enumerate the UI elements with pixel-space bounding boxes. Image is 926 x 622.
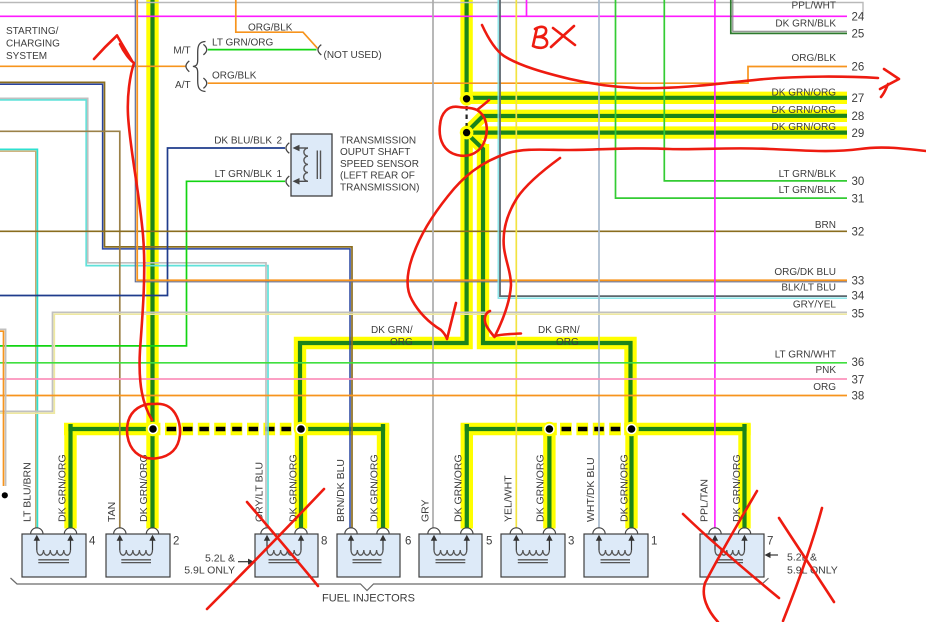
- svg-text:YEL/WHT: YEL/WHT: [503, 475, 515, 522]
- svg-text:PNK: PNK: [815, 365, 836, 376]
- connector arc M/T: [203, 44, 206, 54]
- svg-text:28: 28: [852, 111, 865, 123]
- svg-text:LT GRN/BLK: LT GRN/BLK: [779, 169, 837, 180]
- DASHES: [167, 106, 628, 429]
- wire LT GRN/WHT row 36: [0, 362, 847, 364]
- svg-text:BRN/DK BLU: BRN/DK BLU: [335, 459, 347, 522]
- svg-text:DK GRN/ORG: DK GRN/ORG: [772, 87, 837, 98]
- svg-text:BLK/LT BLU: BLK/LT BLU: [781, 283, 836, 294]
- fuel injector 2: [106, 528, 170, 577]
- wire DK GRN/ORG drop to injector 3 (band): [543, 429, 555, 529]
- wire DK GRN/ORG row 29 (band): [467, 126, 847, 138]
- wire DK GRN/ORG row 27 (stripe): [467, 96, 847, 100]
- wire DK GRN/ORG bus left solid parts (stripe): [71, 424, 147, 429]
- wire dashed bus segment node C to node D: [562, 427, 629, 432]
- svg-text:(NOT USED): (NOT USED): [324, 50, 382, 61]
- wire PPL/TAN purple part to injector 7: [714, 0, 716, 529]
- svg-text:DK GRN/ORG: DK GRN/ORG: [453, 454, 465, 522]
- fuel injector 3: [501, 528, 565, 577]
- svg-text:A/T: A/T: [175, 80, 191, 91]
- svg-text:3: 3: [568, 535, 574, 547]
- sensor lead pin 1 with arrow: [296, 180, 308, 182]
- connector arc NOT USED: [318, 45, 321, 55]
- wire DK GRN/ORG drop to injector 5 (band): [461, 424, 473, 529]
- wire DK GRN/ORG bus right solid parts (stripe): [467, 424, 543, 429]
- fuel injector 4: [22, 528, 86, 577]
- svg-text:DK GRN/ORG: DK GRN/ORG: [535, 454, 547, 522]
- wire DK GRN/ORG row 27 (band): [467, 92, 847, 104]
- svg-text:DK GRN/ORG: DK GRN/ORG: [772, 105, 837, 116]
- svg-text:LT GRN/ORG: LT GRN/ORG: [212, 37, 274, 48]
- wire ORG/BLK from top to NOT USED: [236, 0, 318, 48]
- svg-text:1: 1: [277, 169, 283, 180]
- svg-text:5.2L &: 5.2L &: [205, 553, 235, 565]
- connector arc sensor pin 2: [286, 143, 289, 154]
- svg-text:26: 26: [852, 62, 865, 74]
- wire DK GRN/ORG row 29 (stripe): [467, 131, 847, 135]
- fuel injector 1: [584, 528, 648, 577]
- wire DK GRN/ORG diagonal dot2 down + second vertical + right branch (stripe): [468, 135, 631, 430]
- svg-text:4: 4: [89, 535, 96, 547]
- svg-text:1: 1: [651, 535, 657, 547]
- wire TAN to injector 2: [0, 131, 120, 528]
- svg-text:36: 36: [852, 357, 865, 369]
- svg-text:ORG: ORG: [390, 337, 413, 348]
- svg-text:BRN: BRN: [815, 220, 836, 231]
- svg-text:PPL/TAN: PPL/TAN: [699, 479, 711, 522]
- labels injector wire names rotated: [22, 454, 744, 522]
- wire PPL vertical stub to row 24: [526, 0, 528, 16]
- svg-text:33: 33: [852, 276, 865, 288]
- svg-text:DK GRN/ORG: DK GRN/ORG: [772, 122, 837, 133]
- svg-text:35: 35: [852, 308, 865, 320]
- svg-text:ORG/BLK: ORG/BLK: [248, 23, 293, 34]
- wire DK GRN/ORG thick central vertical + left branch to bus (band): [460, 0, 472, 100]
- node D bus: [624, 422, 639, 437]
- fuel injector 8: [255, 528, 318, 577]
- sensor core lines: [316, 151, 318, 180]
- wire DK GRN/BLK row 25 black companion: [733, 0, 847, 31]
- wire GRY/YEL row 35 gray part: [0, 312, 847, 411]
- svg-text:34: 34: [852, 291, 865, 303]
- svg-text:DK GRN/BLK: DK GRN/BLK: [775, 19, 836, 30]
- wire BRN/DK BLU blue part to injector 6: [0, 84, 350, 528]
- svg-text:ORG/BLK: ORG/BLK: [792, 53, 837, 64]
- svg-text:6: 6: [405, 535, 411, 547]
- wire DK GRN/ORG drop to injector 6 (band): [377, 424, 389, 529]
- svg-text:25: 25: [852, 29, 865, 41]
- wire BRN/DK BLU brown part to injector 6: [0, 82, 352, 528]
- svg-text:LT GRN/BLK: LT GRN/BLK: [215, 169, 273, 180]
- wire YEL/WHT to injector 3: [515, 0, 517, 529]
- wire ORG/BLK A/T branch to row 26: [208, 67, 847, 84]
- wire DK GRN/ORG drops to injectors (stripes): [68, 424, 72, 529]
- wire DK GRN/ORG drop to injector 1 (band): [625, 429, 637, 529]
- fuel injector 6: [337, 528, 400, 577]
- wire BLK/LT BLU row 34 dark part: [500, 0, 847, 296]
- wire orange stub left lower: [0, 331, 4, 486]
- wire GRY to injector 5: [432, 0, 434, 529]
- svg-text:31: 31: [852, 193, 865, 205]
- wire LT GRN/BLK sensor pin 1: [0, 181, 285, 346]
- red annotation circle around bus node A: [127, 404, 180, 459]
- svg-text:LT BLU/BRN: LT BLU/BRN: [22, 462, 34, 522]
- svg-text:ORG/BLK: ORG/BLK: [212, 71, 257, 82]
- svg-text:29: 29: [852, 128, 865, 140]
- wire gray top rail: [0, 3, 863, 17]
- node continuation dot bottom left: [2, 492, 8, 498]
- wire DK GRN/ORG drop to injector 7 (band): [738, 424, 750, 529]
- sensor coil: [304, 148, 308, 181]
- svg-text:LT GRN/WHT: LT GRN/WHT: [775, 350, 836, 361]
- labels right margin wire names: [772, 0, 837, 393]
- fuel injector 5: [419, 528, 482, 577]
- THICK-BANDS: [64, 0, 847, 529]
- node B bus: [294, 422, 309, 437]
- svg-text:TAN: TAN: [106, 502, 118, 522]
- wire ORG/DK BLU row 33 orange part: [137, 0, 847, 280]
- label injector numbers: [89, 535, 773, 547]
- fuel injector 7: [700, 528, 764, 577]
- svg-text:(LEFT REAR OF: (LEFT REAR OF: [340, 171, 415, 182]
- wire DK GRN/ORG injector bus right segment (band): [461, 423, 557, 435]
- wire DK BLU/BLK sensor pin 2: [0, 148, 285, 296]
- svg-text:TRANSMISSION): TRANSMISSION): [340, 182, 419, 193]
- wire DK GRN/ORG thick vertical trunk left (stripe): [150, 0, 154, 529]
- wire WHT/DK BLU to injector 1: [598, 0, 600, 529]
- red annotation peak and long squiggle down to circled node: [94, 36, 117, 60]
- connector arc A/T: [203, 78, 206, 88]
- svg-text:37: 37: [852, 375, 865, 387]
- wire DK GRN/ORG row 28 (band): [478, 110, 847, 122]
- fuel injectors brace bracket: [11, 578, 769, 591]
- svg-text:ORG: ORG: [813, 382, 836, 393]
- wire DK GRN/ORG drop to injector 8 (band): [295, 429, 307, 529]
- wire GRY/LT BLU gray part to injector 8: [0, 98, 266, 528]
- red annotation wavy line from right edge with descending tail and check: [407, 148, 926, 339]
- wire PPL/WHT row 24: [0, 15, 847, 17]
- wire ORG/BLK feed from starting/charging: [0, 65, 186, 67]
- svg-text:5.9L ONLY: 5.9L ONLY: [184, 565, 235, 577]
- svg-text:DK BLU/BLK: DK BLU/BLK: [214, 136, 272, 147]
- node C bus: [542, 422, 557, 437]
- wire BRN row 32: [0, 230, 847, 232]
- wire LT GRN/ORG M/T branch: [208, 49, 317, 51]
- red annotation blob around junction dots: [440, 100, 489, 156]
- wire LT BLU/BRN blue part to injector 4: [0, 149, 37, 528]
- wire GRY/YEL row 35 yellow part: [0, 314, 847, 413]
- transmission output shaft speed sensor box U1: [291, 134, 332, 196]
- brace M/T A/T: [193, 42, 206, 92]
- svg-text:TRANSMISSION: TRANSMISSION: [340, 136, 416, 147]
- wire DK GRN/ORG injector bus left segment (band): [64, 423, 160, 435]
- svg-text:SPEED SENSOR: SPEED SENSOR: [340, 159, 419, 170]
- connector arc sensor pin 1: [286, 176, 289, 187]
- red annotation second descending stroke with check: [495, 158, 560, 336]
- svg-text:DK GRN/ORG: DK GRN/ORG: [619, 454, 631, 522]
- svg-text:DK GRN/: DK GRN/: [538, 325, 580, 336]
- wire DK GRN/ORG drop to injector 4 (band): [64, 424, 76, 529]
- svg-text:LT GRN/BLK: LT GRN/BLK: [779, 185, 837, 196]
- node junction dot 1 on trunk: [460, 92, 474, 106]
- svg-text:PPL/WHT: PPL/WHT: [792, 0, 836, 11]
- red annotation handwritten BX: [533, 27, 547, 48]
- svg-text:32: 32: [852, 227, 865, 239]
- node A bus: [146, 422, 161, 437]
- wire DK GRN/BLK row 25: [731, 0, 847, 33]
- wire LT GRN/BLK row 31: [616, 0, 848, 198]
- svg-text:ORG: ORG: [556, 337, 579, 348]
- svg-text:CHARGING: CHARGING: [6, 39, 60, 50]
- wire LT GRN/BLK row 30: [664, 0, 847, 181]
- svg-text:GRY/YEL: GRY/YEL: [793, 299, 837, 310]
- wire DK GRN/ORG diagonal bands at junction: [469, 116, 484, 131]
- svg-text:7: 7: [767, 535, 773, 547]
- svg-text:M/T: M/T: [173, 46, 190, 57]
- wire ORG row 38: [0, 395, 847, 397]
- svg-text:DK GRN/ORG: DK GRN/ORG: [57, 454, 69, 522]
- red annotation X over injector 7: [683, 514, 779, 598]
- svg-text:38: 38: [852, 391, 865, 403]
- wire DK GRN/ORG diagonal dot2 to row 28 (stripe): [468, 116, 847, 131]
- svg-text:2: 2: [277, 136, 283, 147]
- svg-text:DK GRN/: DK GRN/: [371, 325, 413, 336]
- svg-text:8: 8: [321, 535, 327, 547]
- wire LT BLU/BRN tan part to injector 4: [0, 151, 36, 528]
- THINWIRES: [0, 0, 863, 529]
- svg-text:FUEL INJECTORS: FUEL INJECTORS: [322, 593, 415, 605]
- wire GRY/LT BLU blue part to injector 8: [0, 100, 268, 529]
- svg-text:24: 24: [852, 12, 865, 24]
- svg-text:DK GRN/ORG: DK GRN/ORG: [731, 454, 743, 522]
- wire DK GRN/ORG second vertical + right branch (band): [483, 144, 631, 429]
- svg-text:OUPUT SHAFT: OUPUT SHAFT: [340, 147, 410, 158]
- svg-text:GRY: GRY: [420, 499, 432, 522]
- wire DK GRN/ORG thick vertical trunk left (band): [146, 0, 158, 529]
- wire dashed link between junction dots: [466, 106, 468, 126]
- svg-text:2: 2: [173, 535, 179, 547]
- svg-text:DK GRN/ORG: DK GRN/ORG: [138, 454, 150, 522]
- svg-text:DK GRN/ORG: DK GRN/ORG: [369, 454, 381, 522]
- wire gray stub left lower: [0, 329, 6, 486]
- node junction dot 2 on trunk: [460, 126, 474, 140]
- wire BLK/LT BLU row 34 light blue part: [498, 0, 847, 298]
- GREENS: [71, 0, 848, 529]
- svg-text:DK GRN/ORG: DK GRN/ORG: [288, 454, 300, 522]
- svg-text:30: 30: [852, 176, 865, 188]
- wire dashed bus segment node A to node B: [167, 427, 294, 432]
- svg-text:5: 5: [486, 535, 492, 547]
- wire PNK row 37: [0, 378, 847, 380]
- labels right margin circuit numbers: [852, 12, 865, 403]
- svg-text:WHT/DK BLU: WHT/DK BLU: [585, 457, 597, 522]
- wire DK GRN/ORG central vertical + left branch (stripe): [465, 0, 469, 97]
- connector arc at starting/charging branch: [186, 61, 189, 72]
- svg-text:SYSTEM: SYSTEM: [6, 51, 47, 62]
- svg-text:27: 27: [852, 93, 865, 105]
- red annotation long swoosh with arrow to right edge: [482, 25, 878, 88]
- svg-text:ORG/DK BLU: ORG/DK BLU: [774, 267, 836, 278]
- red annotation X over 5.2L note: [783, 508, 822, 621]
- red annotation X over injector 8: [207, 489, 324, 609]
- svg-text:STARTING/: STARTING/: [6, 26, 59, 37]
- sensor lead pin 2 with arrow: [296, 147, 308, 149]
- wire ORG/DK BLU row 33 dark blue part: [135, 0, 847, 282]
